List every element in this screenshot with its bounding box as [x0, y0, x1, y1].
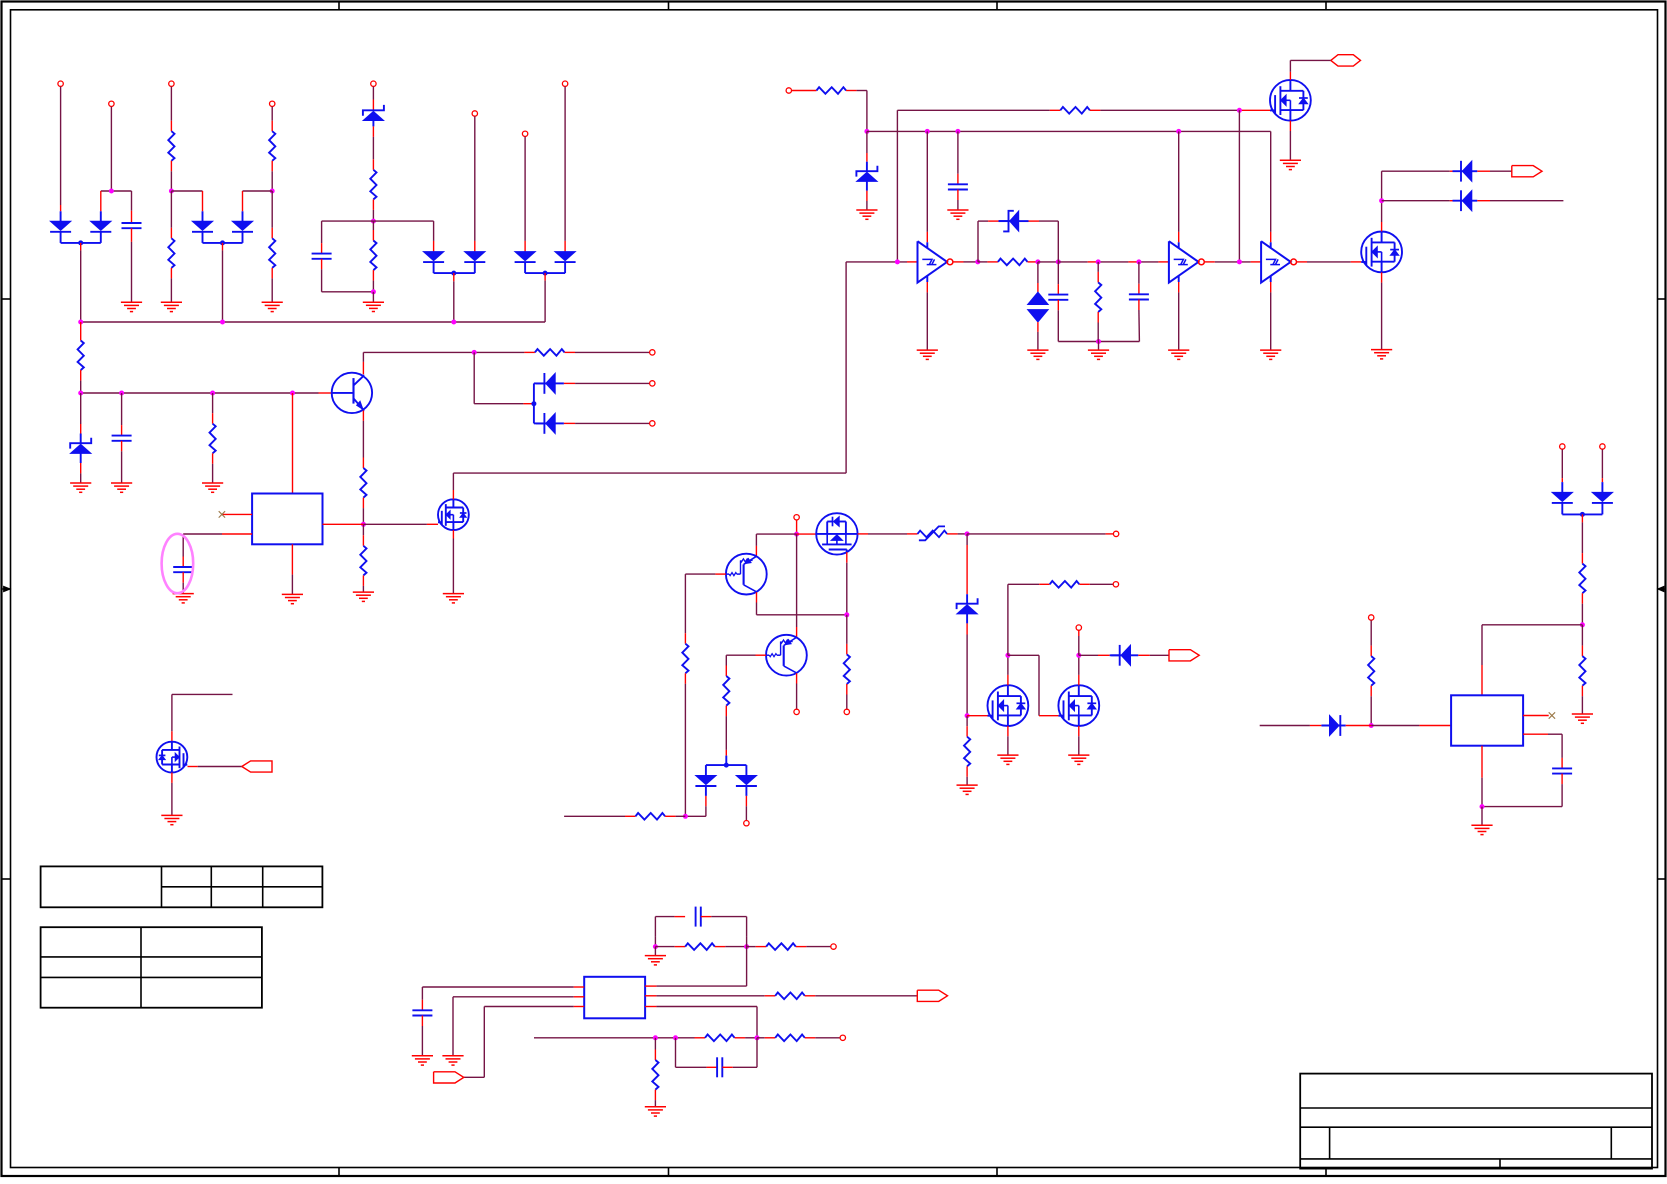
wire feedback right [1029, 221, 1059, 262]
wire R21-P23 [1079, 583, 1113, 585]
IC U1 box [252, 494, 322, 545]
wire P9-R12 [792, 90, 817, 92]
buffer U2 [918, 241, 953, 282]
wire P17-D17 [1601, 449, 1603, 492]
diode D12 [1453, 190, 1478, 211]
wire bus1 [81, 321, 545, 323]
IC U5 box [1451, 695, 1523, 745]
resistor R20 [964, 737, 970, 767]
capacitor C9 loop [655, 907, 746, 937]
ground R20 [957, 785, 978, 794]
wire R14 out [1028, 261, 1039, 263]
wire D11 row [1382, 170, 1461, 172]
wire D18 left [1260, 725, 1330, 727]
node C6 tap [1056, 259, 1061, 264]
wire U3out [1205, 261, 1262, 263]
ground R3 [161, 302, 182, 311]
wire R17 top [846, 615, 848, 655]
node U3out-U4in [1237, 259, 1242, 264]
node out mid [965, 531, 970, 536]
IC U6 left pin1 [422, 986, 584, 988]
wire R10 top [362, 524, 364, 546]
terminal P5 [371, 81, 376, 86]
terminal P14 [794, 709, 799, 714]
wire R23-gnd [1581, 686, 1583, 714]
wire D19-corner [685, 796, 706, 816]
wire R30 top [654, 1038, 656, 1060]
resistor R1 [168, 131, 174, 161]
wire R23 top [1581, 625, 1583, 656]
capacitor C10 loop [676, 1038, 758, 1078]
wire D12 row [1382, 200, 1461, 202]
terminal P8 [562, 81, 567, 86]
buffer U4 [1261, 241, 1296, 282]
node rail b [119, 391, 124, 396]
wire R11-P10 [565, 351, 650, 353]
terminal P24 [1076, 625, 1081, 630]
resistor R19 [636, 813, 666, 820]
diode D11 [1453, 161, 1478, 182]
wire mid segment [1038, 261, 1058, 263]
diode D19 [695, 765, 716, 796]
terminal P22 [1113, 531, 1118, 536]
ground Q1 [1280, 160, 1301, 169]
wire P3-R1 [170, 87, 172, 132]
resistor R27 [775, 993, 805, 1000]
node D14-D15 anchor [531, 383, 536, 423]
wire R19-node [665, 815, 685, 817]
resistor R18 [723, 676, 729, 706]
mosfet Q2 [1361, 232, 1402, 273]
wire node-Q5 gate [363, 523, 438, 525]
mosfet Q7B [1058, 685, 1099, 726]
resistor R5 [370, 170, 376, 200]
diode D2 [90, 211, 111, 243]
diode D1 [50, 211, 71, 243]
wire R25 in [655, 946, 685, 948]
wire Q7B source [1078, 726, 1080, 755]
node bus1 b [220, 320, 225, 325]
ground zener column [363, 302, 384, 311]
wire R3-gnd [170, 268, 172, 302]
wire Q2 drain [1381, 171, 1383, 231]
wire node-D22 [1079, 654, 1110, 656]
wire U2out [953, 261, 978, 263]
wire R1-node [170, 161, 172, 191]
wire P24-node [1078, 631, 1080, 656]
diode D8 [555, 252, 576, 274]
node lineB b [925, 129, 930, 134]
node Q7 gate node [965, 713, 970, 718]
wire Q5 source [452, 530, 454, 593]
resistor R30 [652, 1060, 658, 1090]
wire U2 gnd [926, 276, 928, 350]
terminal P6 [472, 111, 477, 116]
ground Q7A [997, 755, 1018, 764]
terminal P21 [744, 821, 749, 826]
wire node-IC2 left [1371, 725, 1451, 727]
wire D7D8-bus1 [544, 273, 546, 322]
table approvals [41, 927, 262, 1008]
wire DZ4 top [80, 393, 82, 434]
wire P13-node [796, 520, 798, 534]
ground IC2 [1471, 825, 1492, 834]
node stub row [683, 814, 688, 819]
wire R27-flag [805, 995, 918, 997]
flag NET1 [1331, 55, 1361, 66]
node TVS tap [1035, 259, 1040, 264]
ground fb [645, 956, 666, 965]
terminal P13 [794, 515, 799, 520]
ground U2 [917, 350, 938, 359]
mosfet Q6 [816, 513, 857, 554]
IC U6 left pin3 [464, 1007, 584, 1078]
node Q7A drain [1005, 653, 1010, 658]
wire R28-node [735, 1037, 757, 1039]
ground DZ4 [70, 483, 91, 492]
transistor Q8 [726, 554, 767, 595]
wire Q5 drain [452, 473, 454, 499]
node Q2 drain tap [1379, 198, 1384, 203]
terminal P9 [786, 88, 791, 93]
wire R3 top [170, 191, 172, 238]
node bus1 c [451, 320, 456, 325]
wire loop right [373, 221, 433, 251]
node U2 input [895, 259, 900, 264]
node bus2 tap [472, 350, 477, 355]
resistor R25 [685, 943, 715, 950]
wire cathode bus1 riser [80, 243, 82, 322]
capacitor C2 [312, 254, 332, 259]
node right mid [1580, 622, 1585, 627]
wire Q8 collector [757, 592, 847, 615]
wire out-P22 [967, 533, 1113, 535]
wire Q7A source [1007, 726, 1009, 755]
terminal P4 [270, 101, 275, 106]
node fb left [653, 944, 658, 949]
node DZ1 loop bottom [371, 289, 376, 302]
wire P2 riser [110, 107, 112, 191]
wire R5-node [372, 199, 374, 221]
capacitor C1 [122, 191, 142, 302]
wire DZ1-R5 [372, 126, 374, 169]
wire C9 left leg [654, 936, 656, 947]
wire D5D6-bus1 [453, 273, 455, 322]
diode D5 [423, 252, 444, 274]
IC U1 left pin2 [183, 533, 252, 535]
wire C8 chain [1482, 734, 1572, 806]
zener DZ5 [999, 211, 1029, 232]
wire R18-D19D20 [725, 706, 727, 766]
capacitor C11 [412, 987, 432, 1056]
wire R30-gnd [654, 1090, 656, 1107]
node bus1 a [78, 320, 83, 325]
wire DZ2 top [866, 131, 868, 161]
node lineB c [955, 129, 960, 134]
wire Q9b-R18 [725, 655, 727, 676]
no-connect X2 [1549, 712, 1555, 718]
diode D7 [515, 252, 536, 274]
wire Q1 source [1289, 121, 1291, 160]
ground C5 [947, 210, 968, 219]
wire Q8 base [685, 573, 726, 575]
resistor R29 [775, 1035, 805, 1042]
wire R17-P15 [846, 684, 848, 709]
node D16-D17 [1562, 512, 1602, 517]
border center arrow left [2, 586, 11, 592]
wire D18-node [1346, 725, 1372, 727]
flag NET3 [1169, 650, 1199, 661]
ground DZ2 [856, 210, 877, 219]
wire R8 top [212, 393, 214, 424]
wire D11-flag [1477, 170, 1512, 172]
wire P16-D16 [1561, 449, 1563, 492]
table revision [41, 866, 323, 907]
terminal P20 [840, 1035, 845, 1040]
wire loop left [322, 221, 374, 254]
diode D17 [1592, 492, 1613, 514]
terminal P11 [650, 381, 655, 386]
wire R7-rail [80, 370, 82, 393]
wire R4 top [271, 191, 273, 238]
wire Q10 gate [188, 766, 242, 768]
flag NET5 [917, 990, 947, 1001]
diode D3 [192, 211, 213, 243]
resistor R3 [168, 238, 174, 268]
node brow a [653, 1035, 658, 1040]
resistor R15 [1095, 262, 1101, 342]
flag NET6 [434, 1072, 464, 1083]
wire D22-flag [1138, 654, 1169, 656]
resistor R6 [370, 241, 376, 271]
ground TVS1 [1027, 350, 1048, 359]
wire R20 top [966, 716, 968, 737]
diode D4 [232, 211, 253, 243]
flag NET2 [1512, 166, 1542, 177]
node rail a [78, 391, 83, 396]
wire Q6 out [858, 533, 918, 535]
ground rail [1088, 350, 1109, 359]
terminal P16 [1560, 444, 1565, 449]
node U2out [975, 259, 980, 264]
wire node-Q6 [797, 533, 817, 535]
wire R22-node [1581, 593, 1583, 625]
wire loop bottom [322, 259, 374, 292]
wire R8-gnd [212, 453, 214, 483]
wire tap-U3out [1238, 110, 1240, 262]
IC U6 left pin2 [453, 997, 584, 1056]
wire D4 anode [242, 191, 244, 211]
ground R8 [202, 483, 223, 492]
capacitor C7 [1129, 262, 1149, 342]
resistor R2 [269, 131, 275, 161]
terminal P1 [58, 81, 63, 86]
resistor R28 [705, 1035, 735, 1042]
node R1-R3-D3 [169, 189, 203, 194]
diode D16 [1552, 492, 1573, 514]
wire R24-node [1370, 686, 1372, 726]
wire Q7A drain [1007, 655, 1009, 685]
capacitor C4 [173, 567, 193, 572]
node D5-D6 [434, 271, 475, 276]
wire U4 gnd [1270, 276, 1272, 350]
IC U5 right pin1 [1523, 715, 1549, 717]
wire D3 anode [202, 191, 204, 211]
wire node-Q8e corner [756, 534, 796, 556]
node D18 [1369, 723, 1374, 728]
no-connect X1 [219, 511, 225, 517]
node D7-D8 [525, 271, 565, 276]
wire DZ2-gnd [866, 191, 868, 210]
node Q4e-IC1-Q5g [361, 522, 366, 527]
wire D3D4-bus1 [222, 243, 224, 322]
wire D12 stub [1477, 200, 1563, 202]
wire U2 vcc [926, 131, 928, 248]
wire DZ3 top [966, 534, 968, 594]
ground C3 [111, 483, 132, 492]
diode D18 [1322, 715, 1346, 736]
wire node-IC2 top [1482, 625, 1582, 696]
ground pin2 [442, 1056, 463, 1065]
wire P7-D7 [524, 137, 526, 252]
terminal P3 [169, 81, 174, 86]
diode D6 [464, 252, 485, 274]
zener DZ2 [856, 162, 877, 191]
terminal P17 [1600, 444, 1605, 449]
wire Q9 collector [796, 673, 798, 709]
zener DZ4 [70, 434, 91, 464]
resistor R16 [682, 644, 688, 674]
IC U5 right pin2 [1523, 733, 1562, 735]
wire P8-D8 [564, 87, 566, 252]
wire D14 junction [474, 352, 534, 403]
resistor R7 [78, 341, 84, 371]
wire IC1 top pin [292, 393, 294, 494]
wire R29-P20 [805, 1037, 840, 1039]
wire U3 gnd [1178, 276, 1180, 350]
IC U6 right pin2 [645, 995, 775, 997]
wire fb-pin1 [656, 936, 746, 986]
resistor R21 [1050, 581, 1080, 588]
terminal P10 [650, 350, 655, 355]
buffer U3 [1169, 241, 1204, 282]
ground C11 [412, 1056, 433, 1065]
ground Q10 [161, 815, 182, 824]
node rail c [210, 391, 215, 396]
ground Q5 [443, 594, 464, 603]
node lineB a [864, 129, 869, 134]
wire Q6 gate [846, 552, 848, 615]
terminal P15 [844, 709, 849, 714]
wire R26-P19 [796, 946, 831, 948]
ground Q7B [1068, 755, 1089, 764]
flag NET4 [242, 761, 272, 772]
ground Q2 [1371, 350, 1392, 359]
wire DZ4-gnd [80, 463, 82, 483]
wire DZ3-node [966, 623, 968, 715]
wire lineA-U2in [896, 110, 898, 262]
resistor R22 [1579, 564, 1585, 594]
wire gnd stub [1098, 342, 1100, 350]
wire base rail [81, 392, 332, 394]
wire R13-Q1gate [1090, 109, 1270, 111]
resistor R17 [844, 654, 850, 684]
wire bus1-R7 [80, 322, 82, 341]
diode D14 [534, 373, 564, 394]
diode D22 [1110, 645, 1139, 666]
wire Q7B drain [1078, 655, 1080, 685]
wire P4-R2 [271, 107, 273, 132]
wire Q2 source [1381, 272, 1383, 349]
wire P18-R24 [1370, 620, 1372, 656]
wire fb gnd [654, 947, 656, 956]
wire R4-gnd [271, 268, 273, 302]
wire P1-D1 [60, 87, 62, 212]
node D1-D2 cathodes [61, 240, 101, 245]
node brow b [673, 1035, 678, 1040]
wire R16-node [684, 673, 686, 816]
node gnd rail [1096, 339, 1101, 344]
wire R6-node2 [372, 270, 374, 292]
wire R29 in [757, 1037, 775, 1039]
resistor R14 [998, 259, 1028, 266]
wire D16D17-R22 [1581, 514, 1583, 563]
wire C4-gnd [182, 572, 184, 593]
wire D20-P21 [745, 796, 747, 820]
wire U2 input [846, 261, 917, 263]
node Q7B drain [1076, 653, 1081, 658]
node lineB d [1176, 129, 1181, 134]
diode D20 [736, 765, 757, 796]
wire R2-node [271, 161, 273, 191]
wire D2 anode [100, 191, 102, 211]
resistor R13 [1060, 107, 1090, 114]
resistor R4 [269, 238, 275, 268]
resistor R8 [210, 424, 216, 454]
wire R12-corner [846, 91, 867, 132]
wire long link [453, 262, 846, 473]
capacitor C3 [112, 393, 132, 483]
wire U3 vcc [1178, 131, 1180, 248]
IC U1 left pin1 [222, 513, 252, 515]
terminal P7 [522, 131, 527, 136]
zener DZ1 [363, 105, 384, 127]
terminal P19 [831, 944, 836, 949]
mosfet Q5 [438, 499, 469, 530]
ground R23 [1572, 714, 1593, 723]
node IC2 gnd [1480, 804, 1485, 809]
jumper J1 [918, 526, 948, 540]
wire C4 top [182, 534, 184, 567]
terminal P2 [109, 101, 114, 106]
wire Q8b-R16 [684, 574, 686, 644]
wire R6 mid [372, 221, 374, 240]
wire R14 in [978, 261, 998, 263]
wire R26 in [747, 946, 767, 948]
resistor R10 [360, 546, 366, 576]
IC U6 box [584, 977, 645, 1019]
capacitor C6 [1048, 262, 1068, 342]
ground R30 [645, 1107, 666, 1116]
zener DZ3 [957, 594, 978, 623]
wire D15-P12 [564, 422, 650, 424]
IC U1 bottom pin [291, 544, 293, 594]
node P13 [794, 532, 799, 537]
wire Q10 drain link [172, 694, 233, 741]
wire gate Q7a [967, 715, 987, 717]
annotation ellipse [162, 534, 194, 593]
diode D15 [534, 413, 564, 434]
